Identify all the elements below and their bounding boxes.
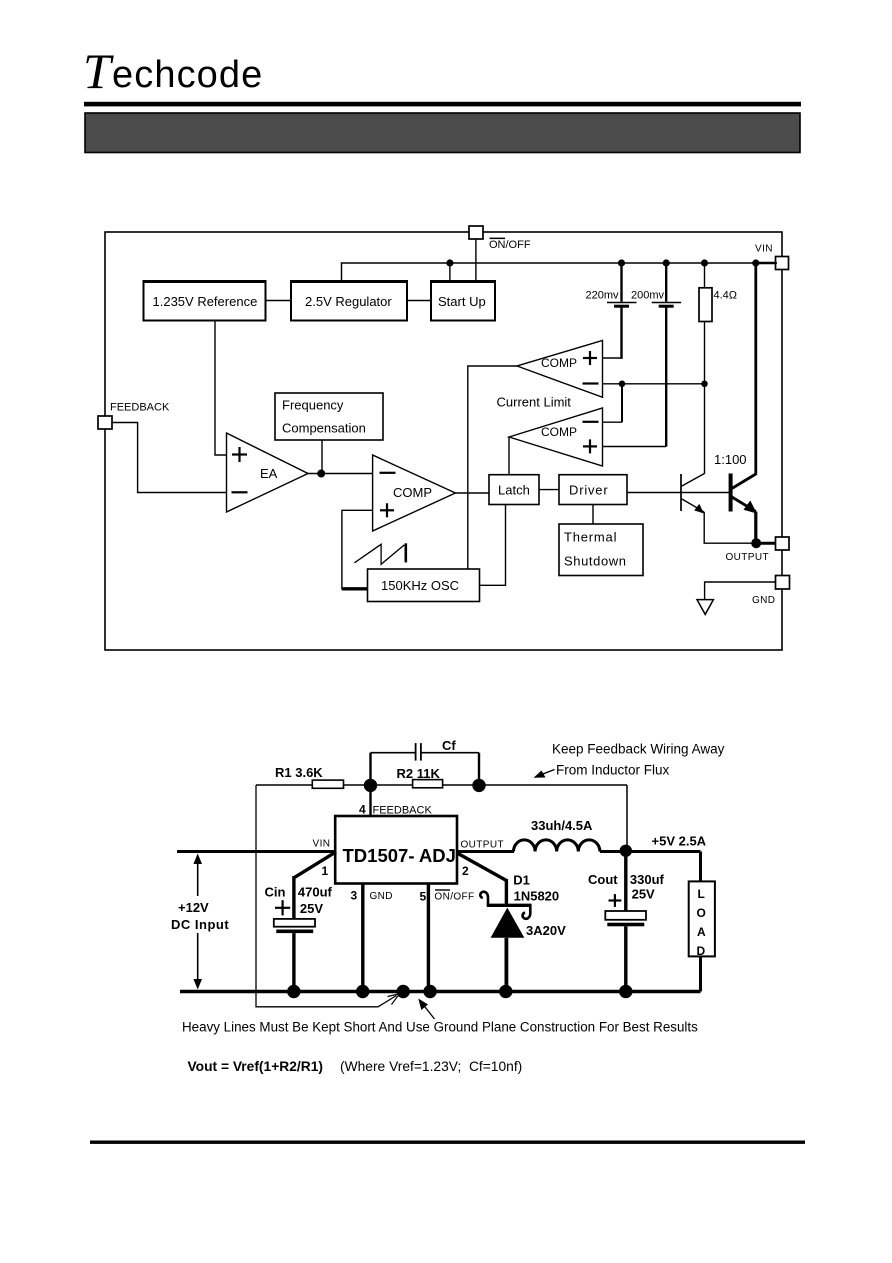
wire pin4: [369, 785, 371, 816]
wire compB output to latch: [508, 437, 510, 475]
logo Techcode: [83, 43, 263, 99]
wire VIN rail: [342, 263, 778, 281]
input voltage arrow: [193, 854, 202, 990]
svg-text:Vout = Vref(1+R2/R1): Vout = Vref(1+R2/R1): [188, 1059, 323, 1074]
wire pin2 diagonal to D1: [458, 854, 506, 881]
resistor 4.4ohm: [699, 263, 712, 384]
svg-text:COMP: COMP: [393, 485, 432, 500]
svg-text:Thermal: Thermal: [564, 530, 617, 545]
wire R1 ground loop: [256, 785, 397, 1007]
transistor Q2 power: [731, 474, 757, 514]
node divider-cf: [472, 779, 485, 792]
box 150KHz OSC: [368, 569, 480, 602]
svg-text:R2 11K: R2 11K: [397, 766, 441, 781]
battery 220mv: [607, 263, 637, 359]
svg-text:220mv: 220mv: [586, 290, 620, 302]
box Thermal Shutdown: [559, 524, 643, 576]
pad OUTPUT: [776, 537, 790, 550]
battery 200mv: [652, 263, 682, 447]
svg-text:470uf: 470uf: [298, 885, 333, 900]
wire EA output: [308, 473, 373, 475]
arrowhead ground loop: [388, 994, 400, 1005]
resistor R2: [413, 780, 443, 788]
label 4 FEEDBACK: [359, 803, 432, 817]
svg-text:OUTPUT: OUTPUT: [461, 840, 505, 851]
node output: [751, 538, 761, 548]
svg-text:TD1507- ADJ: TD1507- ADJ: [343, 845, 456, 866]
svg-text:2.5V Regulator: 2.5V Regulator: [305, 294, 392, 309]
svg-text:Shutdown: Shutdown: [564, 554, 627, 569]
svg-text:3A20V: 3A20V: [526, 923, 566, 938]
svg-text:COMP: COMP: [541, 425, 577, 439]
diode D1 1N5820: [480, 879, 531, 992]
label keep feedback: [552, 742, 725, 778]
banner bar: [85, 113, 800, 153]
node rail collector: [752, 259, 759, 266]
svg-text:Keep Feedback Wiring Away: Keep Feedback Wiring Away: [552, 742, 725, 757]
svg-text:From Inductor Flux: From Inductor Flux: [556, 763, 670, 778]
pin label ON/OFF pin5: [434, 889, 474, 902]
svg-text:Start Up: Start Up: [438, 294, 486, 309]
svg-text:OUTPUT: OUTPUT: [726, 552, 770, 563]
pad FEEDBACK: [98, 416, 112, 429]
ground: [697, 600, 713, 615]
wire compB minus input: [603, 421, 623, 423]
svg-text:Cin: Cin: [265, 885, 286, 900]
node divider-feedback: [364, 779, 377, 792]
wire ground rail: [180, 990, 701, 994]
wire tee down to compB minus: [621, 384, 623, 422]
wire Q2 emitter to output: [754, 512, 757, 544]
svg-text:1.235V Reference: 1.235V Reference: [153, 294, 258, 309]
wire pwm plus input: [342, 510, 373, 589]
footer rule: [90, 1141, 805, 1144]
svg-text:+5V 2.5A: +5V 2.5A: [652, 834, 707, 849]
wire compA plus input: [603, 357, 623, 359]
arrow ground plane note: [418, 999, 434, 1020]
svg-text:(Where Vref=1.23V; Cf=10nf): (Where Vref=1.23V; Cf=10nf): [340, 1059, 522, 1074]
node gnd Cout: [619, 985, 632, 998]
wire Cf right riser: [478, 753, 480, 786]
svg-text:D1: D1: [513, 873, 530, 888]
capacitor Cout: [605, 852, 646, 992]
node gnd D1: [499, 985, 512, 998]
svg-text:1:100: 1:100: [714, 452, 747, 467]
wire feedback to EA minus: [112, 423, 227, 493]
transistor Q1 sense: [681, 473, 705, 513]
capacitor Cin: [274, 876, 315, 992]
svg-text:VIN: VIN: [755, 244, 773, 255]
svg-text:25V: 25V: [632, 887, 655, 902]
svg-text:2: 2: [462, 864, 469, 878]
capacitor Cf: [371, 743, 480, 761]
node minus-A tee: [619, 381, 626, 388]
svg-text:1N5820: 1N5820: [514, 889, 560, 904]
svg-text:ON/OFF: ON/OFF: [489, 239, 531, 251]
svg-text:EA: EA: [260, 466, 278, 481]
wire Start Up stem from rail: [449, 263, 451, 281]
node gnd pin3: [356, 985, 369, 998]
box Frequency Compensation: [275, 393, 383, 440]
wire OSC to latch: [480, 505, 506, 586]
inductor L1: [514, 840, 600, 852]
load box: [689, 852, 715, 992]
wire Q2 collector to rail: [754, 263, 757, 475]
IC U1 TD1507-ADJ: [335, 816, 457, 884]
sawtooth waveform: [354, 543, 405, 564]
wire feedback riser to output node: [626, 785, 628, 851]
svg-text:Heavy Lines Must Be Kept Short: Heavy Lines Must Be Kept Short And Use G…: [182, 1020, 698, 1035]
svg-text:200mv: 200mv: [631, 290, 665, 302]
svg-text:+12V: +12V: [178, 900, 209, 915]
wire pin3: [361, 884, 364, 992]
svg-text:33uh/4.5A: 33uh/4.5A: [531, 818, 593, 833]
formula Vout: [188, 1059, 523, 1074]
wire compB plus input: [603, 446, 667, 448]
wire Regulator to Start Up: [407, 300, 431, 302]
svg-text:3: 3: [351, 889, 358, 903]
label ON/OFF: [489, 238, 531, 251]
node gnd plane: [397, 985, 410, 998]
node rail resistor: [701, 259, 708, 266]
op-amp EA: [227, 433, 309, 512]
pad ON/OFF: [469, 226, 483, 239]
wire Q1 collector to resistor: [704, 384, 706, 474]
box Start Up: [430, 280, 496, 321]
node output: [620, 845, 632, 857]
node resistor tee: [701, 381, 708, 388]
op-amp COMP current-limit A: [517, 340, 603, 397]
svg-text:GND: GND: [752, 595, 775, 606]
wire output to pad: [756, 542, 776, 545]
box Driver: [559, 475, 627, 505]
svg-text:FEEDBACK: FEEDBACK: [110, 402, 170, 414]
svg-text:O: O: [697, 906, 706, 920]
svg-text:A: A: [697, 925, 706, 939]
svg-text:4.4Ω: 4.4Ω: [714, 290, 738, 302]
wire feedback divider: [256, 784, 627, 786]
label R2 11K: [397, 766, 441, 781]
wire Cf left riser: [369, 753, 371, 786]
wire pin1 diagonal: [294, 852, 336, 878]
svg-text:ON/OFF: ON/OFF: [434, 892, 474, 903]
op-amp COMP pwm: [373, 455, 456, 531]
pad GND: [776, 576, 790, 590]
wire latch to driver: [539, 489, 559, 491]
arrow keep feedback: [534, 770, 555, 778]
wire gnd pad to ground: [705, 582, 776, 600]
wire Q1 emitter to output: [704, 512, 756, 544]
svg-text:D: D: [697, 944, 706, 958]
svg-text:4: 4: [359, 803, 366, 817]
svg-text:330uf: 330uf: [630, 872, 665, 887]
pad VIN: [776, 257, 789, 270]
svg-text:echcode: echcode: [112, 54, 263, 96]
wire ON/OFF pad to Start Up: [475, 239, 477, 281]
svg-text:L: L: [698, 887, 705, 901]
block diagram outer boundary: [105, 232, 782, 650]
box Latch: [489, 475, 539, 505]
svg-text:5: 5: [420, 890, 427, 904]
node rail 220mv: [618, 259, 625, 266]
node EA output: [317, 470, 325, 478]
svg-text:Current Limit: Current Limit: [497, 395, 572, 410]
wire pin5: [427, 884, 430, 992]
header rule: [84, 102, 801, 107]
svg-text:VIN: VIN: [313, 839, 331, 850]
svg-text:R1 3.6K: R1 3.6K: [275, 765, 323, 780]
svg-text:Driver: Driver: [569, 483, 608, 498]
box 2.5V Regulator: [290, 280, 408, 321]
wire input rail: [177, 850, 335, 853]
svg-text:1: 1: [322, 864, 329, 878]
wire freq comp stem: [321, 440, 323, 470]
node rail 200mv: [663, 259, 670, 266]
op-amp COMP current-limit B: [509, 408, 603, 466]
node gnd Cin: [287, 985, 300, 998]
wire pwm output to latch: [455, 492, 489, 494]
wire driver stem to thermal: [592, 505, 594, 525]
wire reference to EA plus: [215, 321, 227, 456]
node gnd pin5: [423, 985, 436, 998]
svg-text:T: T: [83, 43, 114, 99]
wire driver to transistor bases: [627, 492, 731, 494]
wire pin2 output: [457, 850, 514, 853]
svg-text:GND: GND: [370, 891, 393, 902]
resistor R1: [312, 780, 343, 788]
svg-text:Frequency: Frequency: [282, 398, 344, 413]
svg-text:150KHz OSC: 150KHz OSC: [381, 578, 459, 593]
svg-text:Latch: Latch: [498, 483, 530, 498]
wire output rail: [600, 850, 701, 853]
svg-text:25V: 25V: [300, 901, 323, 916]
wire compA output: [468, 366, 517, 569]
box 1.235V Reference: [143, 280, 267, 321]
wire Reference to Regulator: [266, 300, 292, 302]
svg-text:COMP: COMP: [541, 356, 577, 370]
svg-text:Cout: Cout: [588, 872, 618, 887]
svg-text:DC Input: DC Input: [171, 917, 229, 932]
svg-text:Compensation: Compensation: [282, 421, 366, 436]
wire compA minus input: [603, 383, 705, 385]
svg-text:Cf: Cf: [442, 738, 456, 753]
node rail-startup: [446, 259, 453, 266]
